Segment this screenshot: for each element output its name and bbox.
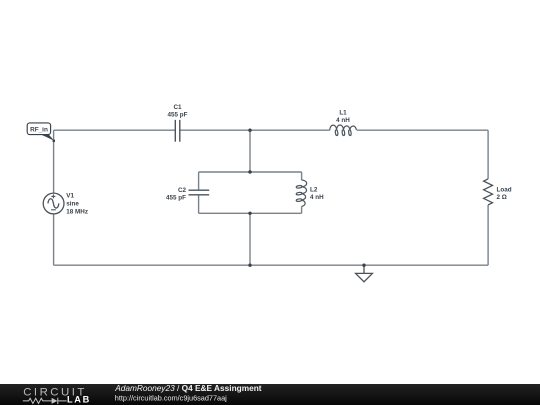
capacitor C1 (175, 120, 180, 142)
wire right vertical upper (487, 130, 489, 179)
wire tank bottom stub (249, 213, 251, 265)
svg-text:V1: V1 (66, 193, 74, 200)
svg-text:LAB: LAB (67, 395, 91, 405)
resistor Load (484, 179, 493, 205)
svg-text:2 Ω: 2 Ω (497, 194, 507, 201)
junction top rail (248, 129, 251, 132)
junction tank bottom (248, 212, 251, 215)
junction bottom rail (248, 264, 251, 267)
wire top rail left segment (54, 129, 176, 131)
svg-text:4 nH: 4 nH (336, 117, 350, 124)
voltage source V1 (43, 193, 64, 214)
svg-text:L2: L2 (310, 186, 318, 193)
svg-text:C2: C2 (178, 187, 187, 194)
wire left vertical upper (53, 130, 55, 193)
footer bar (0, 384, 540, 405)
svg-text:sine: sine (66, 201, 79, 208)
svg-text:RF_in: RF_in (30, 126, 48, 133)
wire tank loop left lower (198, 195, 200, 214)
junction ground (362, 264, 365, 267)
CircuitLab logo squiggle (23, 398, 67, 404)
wire tank loop top (199, 171, 302, 173)
svg-text:455 pF: 455 pF (166, 194, 186, 201)
wire right vertical lower (487, 205, 489, 265)
wire bottom rail (54, 264, 489, 266)
wire tank loop right upper (301, 172, 303, 180)
wire top rail right segment (357, 129, 488, 131)
wire tank loop left upper (198, 172, 200, 190)
svg-text:Load: Load (497, 186, 512, 193)
svg-text:455 pF: 455 pF (168, 111, 188, 118)
node RF_in flag (27, 123, 55, 142)
junction tank top (248, 170, 251, 173)
wire tank loop bottom (199, 212, 302, 214)
svg-text:L1: L1 (339, 109, 347, 116)
inductor L1 (330, 125, 357, 136)
inductor L2 (296, 180, 307, 206)
svg-text:AdamRooney23 / Q4 E&E Assingme: AdamRooney23 / Q4 E&E Assingment (114, 383, 262, 393)
svg-text:C1: C1 (173, 104, 182, 111)
ground (356, 265, 373, 282)
wire left vertical lower (53, 214, 55, 265)
svg-text:4 nH: 4 nH (310, 194, 324, 201)
wire tank loop right lower (301, 206, 303, 213)
svg-text:18 MHz: 18 MHz (66, 209, 88, 216)
wire top rail mid segment (180, 129, 330, 131)
wire tank top stub (249, 130, 251, 172)
capacitor C2 (189, 190, 210, 195)
svg-text:http://circuitlab.com/c9ju6sad: http://circuitlab.com/c9ju6sad77aaj (115, 394, 227, 403)
